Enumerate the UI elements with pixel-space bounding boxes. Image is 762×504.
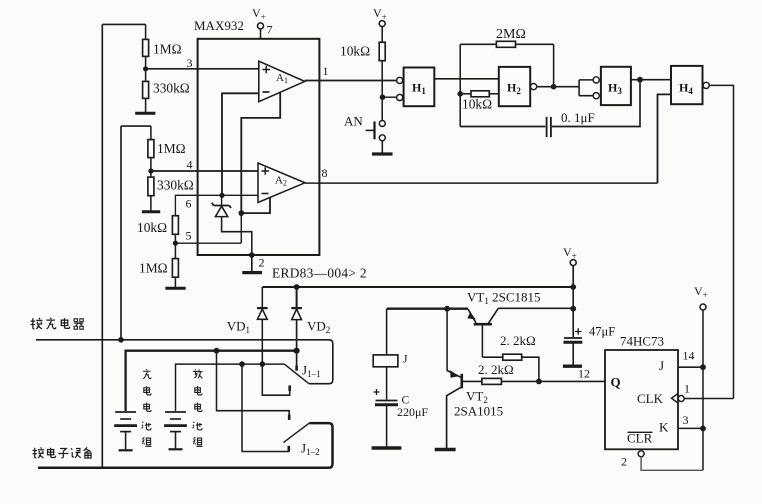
svg-text:2: 2 — [621, 455, 627, 469]
power V+ terminal (flip-flop) — [694, 284, 708, 470]
svg-text:2. 2kΩ: 2. 2kΩ — [478, 362, 514, 377]
wire: to ground — [174, 277, 176, 287]
svg-text:10kΩ: 10kΩ — [462, 97, 492, 112]
label: connect electronic device (Chinese) — [33, 447, 92, 458]
op-amp A1 — [259, 61, 305, 101]
inverter H3 — [593, 67, 631, 105]
power V+ terminal (main) — [563, 245, 577, 337]
node: pin3 dot — [700, 426, 706, 432]
pushbutton AN — [344, 114, 385, 153]
wire: to ground — [150, 196, 152, 211]
wire: pin 8 output of A2 to H4 riser — [305, 182, 658, 184]
node: 10k input junction dot — [457, 91, 463, 97]
node: VD2 top dot — [294, 284, 300, 290]
wire: left rail from top divider down to device bus — [102, 24, 145, 467]
wire: H2 output to H3 fork — [537, 86, 579, 88]
svg-text:Q: Q — [611, 375, 621, 390]
node: VT1 base rail dot — [444, 306, 450, 312]
node: bus VD2 dot — [294, 348, 300, 354]
resistor 1Mohm (pin5 lower) — [139, 259, 178, 278]
node: pin6 inner junction dot — [219, 193, 224, 198]
ground (AN switch) — [372, 152, 393, 155]
wire: junction down to pin5 wire — [240, 213, 242, 243]
wire: A2 feedback to junction — [241, 198, 270, 214]
svg-text:74HC73: 74HC73 — [620, 334, 664, 349]
resistor 2Mohm feedback — [460, 27, 553, 47]
resistor 1Mohm (upper divider top) — [143, 39, 182, 56]
wire: pin 1 output of A1 to H1 upper input — [305, 80, 397, 82]
label: discharge battery pack column — [193, 369, 203, 446]
wire: second divider bracket — [121, 126, 151, 340]
svg-text:12: 12 — [578, 367, 590, 381]
capacitor 47uF — [563, 325, 615, 367]
battery: charge battery pack — [114, 412, 137, 450]
svg-text:AN: AN — [344, 114, 363, 129]
svg-text:J: J — [659, 358, 664, 373]
node: H2 output dot — [551, 84, 557, 90]
svg-text:3: 3 — [683, 413, 689, 427]
node: H1 lower input junction dot — [380, 94, 386, 100]
wire: charger bus to J1-1 loop — [36, 340, 333, 384]
node: A2 feedback junction dot — [239, 210, 245, 216]
capacitor C 220uF — [372, 367, 429, 448]
diode VD2 — [291, 287, 330, 351]
svg-text:VT1 2SC1815: VT1 2SC1815 — [467, 290, 541, 307]
inverter H1 — [397, 68, 435, 107]
wire: pin 4 to A2 + input — [151, 170, 259, 172]
resistor 2.2kohm (VT2 base) — [462, 362, 605, 384]
wire: battery bus (thick) — [126, 351, 297, 411]
svg-text:3: 3 — [187, 56, 193, 70]
power V+ terminal (pull-up) — [373, 6, 387, 42]
node: VD1 branch dot — [260, 361, 266, 367]
node: pin 2 junction on box bottom — [249, 252, 255, 258]
node: pin3 junction dot — [143, 66, 148, 71]
node: pin5 junction dot — [173, 241, 178, 246]
svg-text:1: 1 — [323, 64, 329, 78]
svg-text:220μF: 220μF — [397, 405, 428, 419]
relay coil J — [373, 309, 408, 367]
resistor 1Mohm (second divider top) — [148, 140, 186, 158]
wire: H3 output to H4 — [631, 79, 671, 81]
wire: pull-up down across pin1 wire to H1 lower input node — [381, 61, 383, 121]
wire: A1 feedback down-left-down — [241, 92, 280, 213]
wire: feedback node vertical (2M / 10k / cap) — [459, 44, 461, 126]
wire: to ground — [145, 98, 147, 112]
ground pin 2 — [251, 255, 253, 272]
inverter H2 — [499, 67, 537, 106]
label: connect charger (Chinese) — [31, 318, 84, 329]
pin 14 wire J — [678, 366, 703, 368]
wire: top of second 1Mohm — [150, 126, 152, 140]
relay contact J1-1 — [262, 351, 320, 396]
node: base network dot — [536, 379, 542, 385]
svg-text:1: 1 — [684, 382, 690, 396]
pin 3 wire K — [678, 427, 703, 429]
resistor 330kohm (second divider bottom) — [148, 177, 194, 196]
wire: pin 6 from 10k top — [175, 195, 258, 215]
diode VD1 — [227, 287, 268, 364]
transistor VT1 2SC1815 — [387, 290, 574, 358]
node: pin4 junction dot — [148, 168, 153, 173]
wire: 10k bottom to node — [174, 234, 176, 258]
resistor 10kohm (H2 input) — [460, 91, 499, 112]
wire: discharge battery top link — [176, 364, 285, 411]
label: charge battery pack column — [142, 369, 152, 446]
pin 2 terminal and return wire — [621, 451, 703, 471]
wire: pin 5 into box — [175, 242, 241, 244]
svg-text:2: 2 — [259, 256, 265, 270]
resistor 10kohm (hysteresis) — [137, 216, 178, 235]
battery: discharge battery pack — [164, 412, 187, 449]
node: rail/V+ dot — [570, 284, 576, 290]
wire: V+ rail over diodes — [262, 286, 573, 288]
resistor 330kohm (upper divider bottom) — [143, 81, 190, 99]
resistor 10kohm pull-up — [340, 42, 385, 61]
svg-text:4: 4 — [187, 158, 193, 172]
svg-text:2SA1015: 2SA1015 — [454, 404, 503, 419]
inverter H4 — [671, 66, 709, 104]
svg-text:K: K — [659, 420, 669, 435]
flip-flop U2 74HC73 — [605, 334, 678, 450]
wire: divider mid — [145, 56, 147, 81]
svg-text:330kΩ: 330kΩ — [153, 81, 190, 96]
node: H3 output dot — [637, 77, 643, 83]
svg-text:7: 7 — [267, 23, 273, 37]
wire: device bus to J1-2 loop — [38, 423, 333, 468]
wire: A1 inverting input to pin 6 node — [222, 93, 259, 195]
ground (second divider) — [142, 210, 160, 213]
wire: pin 3 to A1 + input — [146, 68, 259, 70]
capacitor 0.1uF feedback — [460, 80, 640, 137]
op-amp A2 — [258, 163, 305, 203]
svg-text:1MΩ: 1MΩ — [157, 141, 186, 156]
node: pin14 dot — [700, 364, 706, 370]
svg-text:1MΩ: 1MΩ — [139, 261, 168, 276]
wire: 2M right end down to H2 output node — [553, 44, 555, 86]
op-amp U1 MAX932 package box — [198, 39, 320, 255]
wire: H3 input fork — [579, 80, 593, 96]
wire: H1 output to H2 input — [434, 78, 499, 80]
node: bus riser dot — [214, 348, 220, 354]
pin 1 wire CLK with bubble — [678, 396, 684, 402]
node: V+ / VT1 collector rail dot — [570, 306, 576, 312]
svg-text:2MΩ: 2MΩ — [496, 27, 526, 42]
power V+ terminal pin 7 — [252, 6, 273, 39]
wire: top of 1Mohm divider — [145, 24, 147, 39]
svg-text:CLK: CLK — [637, 391, 664, 406]
svg-text:0. 1μF: 0. 1μF — [561, 110, 595, 125]
zener diode (internal reference) — [212, 195, 252, 255]
svg-text:5: 5 — [186, 229, 192, 243]
svg-text:330kΩ: 330kΩ — [157, 178, 194, 193]
svg-text:10kΩ: 10kΩ — [340, 44, 370, 59]
node: charger/bracket dot — [118, 337, 124, 343]
resistor 2.2kohm (VT1 emitter) — [482, 333, 539, 381]
svg-text:6: 6 — [186, 197, 192, 211]
svg-text:ERD83—004> 2: ERD83—004> 2 — [272, 266, 367, 281]
relay contact J1-2 — [217, 351, 320, 457]
svg-text:MAX932: MAX932 — [194, 18, 244, 33]
ground (upper divider) — [135, 112, 155, 115]
wire: node to H1 lower bubble — [383, 96, 397, 98]
transistor VT2 2SA1015 — [435, 309, 503, 450]
svg-text:47μF: 47μF — [589, 325, 615, 339]
svg-text:J: J — [403, 354, 408, 366]
svg-text:1MΩ: 1MΩ — [153, 42, 182, 57]
wire: H4 lower input riser from pin 8 line — [658, 94, 672, 183]
svg-text:8: 8 — [322, 166, 328, 180]
svg-text:10kΩ: 10kΩ — [137, 220, 167, 235]
ground (pin5 divider) — [165, 287, 185, 290]
wire: second divider mid — [150, 158, 152, 178]
svg-text:14: 14 — [683, 349, 695, 363]
node: J1-2 post branch dot — [239, 361, 245, 367]
svg-text:2. 2kΩ: 2. 2kΩ — [500, 333, 536, 348]
wire: H4 output to CLK vertical — [709, 85, 733, 398]
